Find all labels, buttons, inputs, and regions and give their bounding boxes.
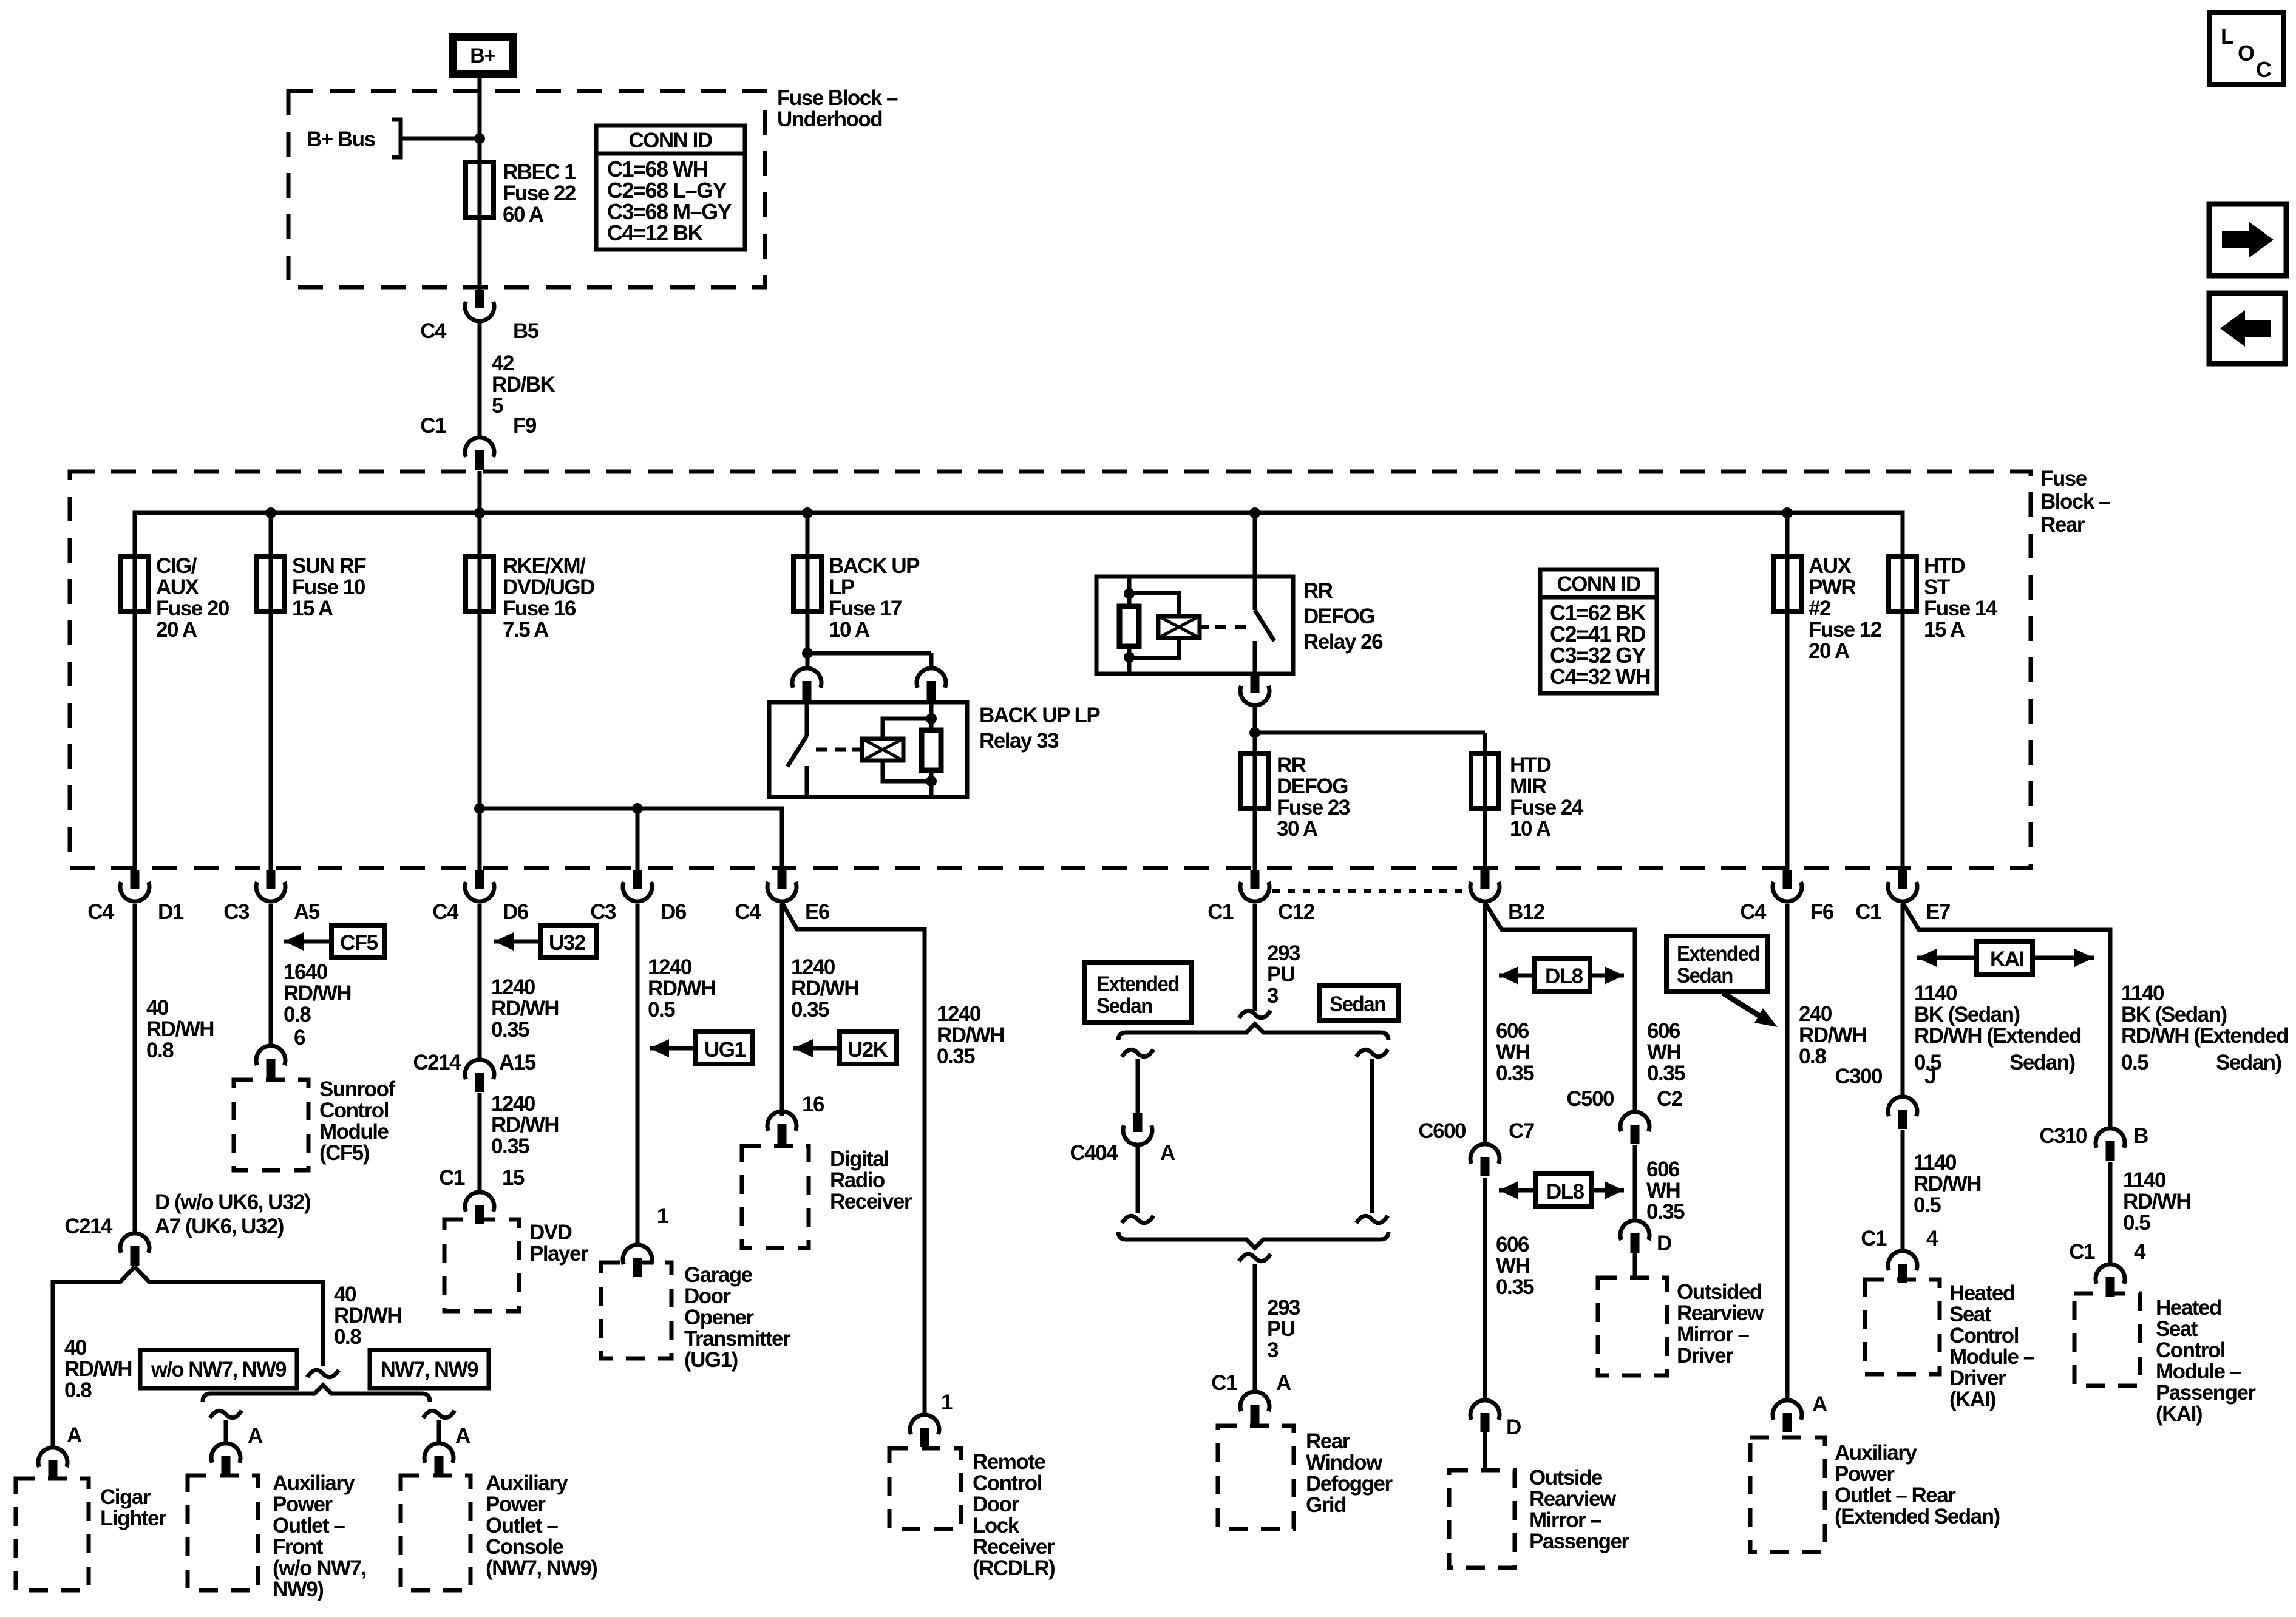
svg-text:SUN RF: SUN RF [292, 554, 366, 578]
svg-text:Module –: Module – [1949, 1345, 2035, 1369]
svg-text:Sedan: Sedan [1677, 964, 1733, 988]
svg-text:O: O [2238, 41, 2254, 66]
svg-text:BACK UP: BACK UP [829, 554, 920, 578]
svg-text:C: C [2256, 57, 2272, 82]
svg-text:C1: C1 [1211, 1371, 1237, 1395]
svg-text:Fuse 14: Fuse 14 [1924, 597, 1998, 620]
wire branch to passenger heated seat [1903, 903, 2110, 1128]
svg-text:0.5: 0.5 [2123, 1211, 2150, 1235]
svg-text:60 A: 60 A [503, 203, 544, 226]
svg-text:RR: RR [1303, 579, 1333, 603]
component box Cigar Lighter [16, 1479, 89, 1590]
svg-text:C310: C310 [2039, 1124, 2087, 1148]
connector B12 [1470, 870, 1545, 924]
label Remote Control Door Lock Receiver (RCDLR) [973, 1450, 1055, 1580]
svg-text:0.5: 0.5 [648, 998, 675, 1022]
label 1140 RD/WH 0.5 passenger [2123, 1168, 2190, 1235]
svg-text:293: 293 [1267, 941, 1300, 965]
label B+ Bus [307, 127, 376, 151]
label Heated Seat Control Module Driver (KAI) [1949, 1281, 2035, 1411]
label Fuse Block - Rear [2040, 467, 2110, 537]
connector A aux outlet rear [1773, 1392, 1827, 1432]
label 606 WH 0.35 below C500 [1646, 1158, 1685, 1224]
fuse SUN RF Fuse 10 15A [257, 554, 366, 620]
svg-text:NW9): NW9) [273, 1578, 323, 1601]
fuse HTD ST Fuse 14 15A [1889, 554, 1998, 642]
svg-text:WH: WH [1496, 1040, 1529, 1064]
svg-text:7.5 A: 7.5 A [503, 618, 549, 642]
label 40 RD/WH 0.8 [146, 996, 214, 1062]
svg-text:606: 606 [1647, 1019, 1680, 1043]
svg-text:Garage: Garage [684, 1263, 753, 1287]
svg-text:Seat: Seat [2156, 1317, 2198, 1341]
connector 6 sunroof [256, 1046, 285, 1078]
svg-text:RD/WH: RD/WH [491, 997, 559, 1020]
label 1140 BK Sedan RD/WH right [2121, 981, 2288, 1074]
relay box BACK UP LP Relay 33 [769, 702, 967, 797]
svg-text:Heated: Heated [1949, 1281, 2015, 1305]
svg-text:Power: Power [1835, 1462, 1895, 1486]
svg-text:Fuse 12: Fuse 12 [1809, 618, 1882, 642]
wire branch to C500 [1485, 903, 1635, 1111]
wire branch to D6 and E6 [480, 803, 782, 870]
svg-text:4: 4 [1926, 1227, 1938, 1250]
connector C214 splice [64, 1215, 149, 1266]
fuse RBEC 1 Fuse 22 60A [466, 162, 494, 217]
svg-text:1: 1 [941, 1391, 953, 1414]
svg-text:L: L [2221, 24, 2233, 49]
svg-text:0.5: 0.5 [2121, 1051, 2148, 1074]
svg-text:1: 1 [657, 1204, 668, 1228]
label 42 RD/BK 5 [492, 351, 555, 418]
option box Extended Sedan 2 with arrow [1666, 936, 1778, 1027]
svg-text:A: A [455, 1424, 470, 1448]
component box Garage Door Opener Transmitter [601, 1263, 671, 1358]
connector 1 garage door opener [623, 1204, 668, 1277]
bus bar wire [135, 507, 1903, 557]
label DVD Player [529, 1221, 589, 1266]
svg-text:RD/WH: RD/WH [284, 981, 351, 1005]
svg-text:606: 606 [1646, 1158, 1680, 1181]
label 1140 BK Sedan RD/WH left [1914, 981, 2081, 1074]
component box Outside Rearview Mirror Driver [1598, 1278, 1667, 1375]
splice tilde on 40 RD/WH [307, 1370, 339, 1377]
fuse AUX PWR #2 Fuse 12 20A [1773, 554, 1882, 663]
svg-text:240: 240 [1799, 1002, 1832, 1026]
svg-text:CONN ID: CONN ID [628, 129, 712, 152]
svg-text:30 A: 30 A [1277, 817, 1318, 841]
fuse RR DEFOG Fuse 23 30A [1241, 753, 1350, 841]
svg-text:ST: ST [1924, 575, 1950, 599]
label 1640 RD/WH 0.8 6 [284, 960, 351, 1049]
svg-text:293: 293 [1267, 1296, 1300, 1320]
svg-text:Front: Front [273, 1535, 324, 1559]
svg-text:0.8: 0.8 [146, 1039, 174, 1062]
svg-text:Sedan: Sedan [1096, 994, 1152, 1018]
label 293 PU 3 [1267, 941, 1300, 1008]
svg-text:C4: C4 [420, 319, 447, 343]
connector C404/A [1070, 1113, 1175, 1165]
svg-text:C214: C214 [413, 1051, 461, 1074]
option break tilde [1239, 1011, 1271, 1018]
double arrow KAI [1917, 941, 2094, 974]
svg-text:1240: 1240 [791, 955, 835, 979]
svg-text:Control: Control [2156, 1338, 2225, 1362]
svg-text:Module –: Module – [2156, 1360, 2241, 1383]
svg-text:0.35: 0.35 [1496, 1275, 1534, 1299]
svg-text:(RCDLR): (RCDLR) [973, 1556, 1055, 1580]
svg-text:RKE/XM/: RKE/XM/ [503, 554, 586, 578]
svg-text:Outsided: Outsided [1677, 1280, 1762, 1304]
connector relay33 left input [792, 668, 821, 700]
svg-text:Rearview: Rearview [1677, 1301, 1764, 1325]
svg-text:NW7, NW9: NW7, NW9 [381, 1358, 478, 1381]
svg-text:Seat: Seat [1949, 1303, 1992, 1326]
svg-text:Control: Control [319, 1099, 389, 1122]
svg-text:0.8: 0.8 [334, 1325, 361, 1349]
svg-text:BK (Sedan): BK (Sedan) [2121, 1003, 2227, 1026]
connector C3/A5 [223, 870, 320, 924]
wire fuse17 to relay 33 feeds [802, 648, 931, 668]
svg-text:E7: E7 [1926, 900, 1950, 924]
svg-text:Sedan: Sedan [1330, 992, 1385, 1016]
label Outside Rearview Mirror Passenger [1529, 1466, 1629, 1553]
svg-text:Defogger: Defogger [1306, 1472, 1393, 1496]
wire B+ to fuse 22 [478, 74, 482, 290]
wire 293 PU to option split [1253, 904, 1257, 1011]
svg-text:Fuse 22: Fuse 22 [503, 181, 576, 205]
wire relay26 branch [1253, 513, 1257, 577]
svg-text:KAI: KAI [1990, 947, 2024, 971]
svg-text:4: 4 [2134, 1240, 2146, 1264]
svg-text:1140: 1140 [2123, 1168, 2166, 1192]
svg-text:DEFOG: DEFOG [1303, 605, 1374, 628]
connector C1/4 driver [1861, 1227, 1938, 1283]
svg-text:AUX: AUX [156, 575, 200, 599]
connector D passenger mirror [1470, 1400, 1521, 1470]
svg-text:Driver: Driver [1949, 1366, 2006, 1390]
svg-text:Fuse 23: Fuse 23 [1277, 796, 1350, 819]
svg-text:A: A [248, 1424, 263, 1448]
svg-text:0.8: 0.8 [1799, 1045, 1826, 1068]
svg-text:Outlet – Rear: Outlet – Rear [1835, 1483, 1956, 1507]
svg-text:U32: U32 [549, 931, 586, 955]
svg-text:HTD: HTD [1924, 554, 1965, 578]
power symbol B+ [453, 37, 513, 74]
svg-text:RR: RR [1277, 753, 1306, 777]
option box Extended Sedan [1084, 963, 1191, 1023]
svg-text:15: 15 [502, 1166, 525, 1190]
svg-text:C1: C1 [1861, 1227, 1887, 1250]
underbrace sedan options [1118, 1232, 1388, 1248]
connector C1/F9 [420, 414, 537, 470]
svg-text:Fuse 17: Fuse 17 [829, 597, 902, 620]
label 16 [802, 1093, 824, 1116]
component box DVD Player [444, 1219, 519, 1311]
component box Sunroof Control Module [234, 1080, 308, 1170]
connector C310/B [2039, 1124, 2148, 1161]
svg-text:Lock: Lock [973, 1514, 1020, 1537]
connector C4/D1 [87, 870, 184, 924]
svg-text:AUX: AUX [1809, 554, 1852, 578]
connector D driver mirror [1620, 1221, 1671, 1278]
connector C214/A15 [413, 1051, 535, 1092]
svg-text:BACK UP LP: BACK UP LP [979, 703, 1100, 727]
svg-text:C4: C4 [1740, 900, 1767, 924]
svg-text:(Extended Sedan): (Extended Sedan) [1835, 1505, 2000, 1528]
svg-text:1140: 1140 [2121, 981, 2164, 1005]
label RBEC 1 Fuse 22 60 A [503, 160, 576, 226]
svg-text:40: 40 [64, 1336, 87, 1360]
svg-text:DVD/UGD: DVD/UGD [503, 575, 594, 599]
overbrace sedan options [1118, 1024, 1388, 1040]
svg-text:0.35: 0.35 [491, 1018, 529, 1042]
extended sedan branch wire lower [1122, 1147, 1153, 1223]
svg-text:Remote: Remote [973, 1450, 1045, 1474]
wire backup branch [806, 513, 810, 668]
svg-text:Outside: Outside [1529, 1466, 1603, 1490]
label Digital Radio Receiver [830, 1147, 912, 1213]
svg-text:Cigar: Cigar [100, 1485, 151, 1509]
svg-text:0.35: 0.35 [791, 998, 829, 1022]
svg-text:WH: WH [1647, 1040, 1680, 1064]
svg-text:Passenger: Passenger [1529, 1530, 1629, 1553]
label Auxiliary Power Outlet Front [273, 1471, 366, 1601]
svg-text:(UG1): (UG1) [684, 1348, 738, 1372]
wire to heated seat driver module [1901, 1130, 1905, 1250]
wire heated seat driver [1901, 904, 1905, 1096]
wire 1640 RD/WH to sunroof [269, 904, 273, 1047]
svg-text:Radio: Radio [830, 1168, 885, 1192]
label 40 RD/WH 0.8 right [334, 1283, 401, 1349]
wire B12 to mirrors [1483, 904, 1487, 1400]
svg-text:Control: Control [973, 1471, 1042, 1495]
dashed box Fuse Block - Rear [70, 472, 2031, 868]
connector 1 RCDLR [910, 1391, 953, 1447]
svg-text:Auxiliary: Auxiliary [1835, 1441, 1917, 1465]
svg-text:RD/WH: RD/WH [1799, 1023, 1866, 1047]
svg-text:Rear: Rear [2040, 513, 2085, 537]
svg-text:Lighter: Lighter [100, 1507, 167, 1530]
connector A aux outlet console [424, 1424, 470, 1476]
svg-text:Auxiliary: Auxiliary [273, 1471, 355, 1495]
svg-text:Door: Door [684, 1284, 732, 1308]
relay33 switch [787, 702, 807, 797]
svg-text:20 A: 20 A [1809, 639, 1850, 663]
svg-text:D: D [1657, 1232, 1671, 1255]
component box Remote Control Door Lock Receiver [889, 1448, 961, 1529]
label D A7 options [155, 1190, 310, 1238]
label 1140 RD/WH 0.5 driver [1914, 1151, 1981, 1217]
connector C500/C2 [1566, 1087, 1682, 1144]
svg-text:Fuse 24: Fuse 24 [1510, 796, 1584, 819]
svg-text:CIG/: CIG/ [156, 554, 197, 578]
CONN ID table underhood [596, 126, 745, 249]
svg-text:606: 606 [1496, 1019, 1529, 1043]
connector C4/E6 [735, 870, 830, 924]
label 1240 RD/WH 0.35 rcdlr [937, 1002, 1004, 1068]
wire rke branch [478, 513, 482, 870]
connector C4/D6 [432, 870, 529, 924]
svg-text:1240: 1240 [491, 975, 535, 999]
wire 1240 RD/WH to C214/A15 [478, 904, 482, 1059]
label 240 RD/WH 0.8 [1799, 1002, 1866, 1068]
label 1240 RD/WH 0.35 lower [491, 1092, 559, 1158]
svg-text:15 A: 15 A [292, 597, 333, 620]
label 1240 RD/WH 0.35 [491, 975, 559, 1042]
label 1240 RD/WH 0.35 radio [791, 955, 858, 1022]
svg-text:D: D [1506, 1415, 1521, 1439]
label 40 RD/WH 0.8 left [64, 1336, 132, 1402]
svg-text:D6: D6 [503, 900, 529, 924]
svg-text:HTD: HTD [1510, 753, 1551, 777]
svg-text:3: 3 [1267, 1338, 1279, 1362]
svg-text:F6: F6 [1810, 900, 1834, 924]
svg-text:C1: C1 [1855, 900, 1881, 924]
svg-text:(CF5): (CF5) [319, 1141, 369, 1165]
svg-text:A: A [1276, 1371, 1291, 1395]
svg-text:C404: C404 [1070, 1141, 1118, 1165]
wire 293 PU to defogger grid [1239, 1254, 1271, 1391]
svg-text:C2: C2 [1657, 1087, 1683, 1111]
svg-text:A7 (UK6, U32): A7 (UK6, U32) [155, 1215, 284, 1238]
connector C4/B5 [420, 290, 539, 343]
svg-text:J: J [1924, 1065, 1935, 1088]
svg-text:Mirror –: Mirror – [1529, 1508, 1601, 1532]
svg-text:Fuse Block –: Fuse Block – [777, 86, 898, 110]
svg-text:RD/WH: RD/WH [1914, 1172, 1981, 1196]
component box Auxiliary Power Outlet Rear [1750, 1437, 1825, 1552]
connector C1/4 passenger [2069, 1240, 2146, 1297]
svg-text:Driver: Driver [1677, 1344, 1734, 1368]
arrow CF5 [284, 926, 385, 957]
svg-text:WH: WH [1646, 1179, 1680, 1202]
svg-text:C4: C4 [432, 900, 459, 924]
svg-text:#2: #2 [1809, 597, 1831, 620]
svg-text:B5: B5 [513, 319, 539, 343]
arrow UG1 [650, 1032, 752, 1064]
svg-text:UG1: UG1 [704, 1038, 746, 1062]
svg-text:RBEC 1: RBEC 1 [503, 160, 576, 184]
wire 240 RD/WH to aux outlet rear [1785, 904, 1790, 1400]
svg-text:1140: 1140 [1914, 981, 1957, 1005]
wire C2 to driver mirror [1633, 1145, 1637, 1220]
nav box arrow left [2209, 293, 2285, 364]
svg-text:CF5: CF5 [340, 931, 378, 955]
connector C1/A defogger [1211, 1371, 1291, 1424]
connector relay33 right input [917, 668, 946, 700]
svg-text:20 A: 20 A [156, 618, 197, 642]
label Cigar Lighter [100, 1485, 167, 1530]
connector C600/C7 [1418, 1119, 1533, 1176]
svg-text:A: A [1160, 1141, 1175, 1165]
svg-text:RD/WH (Extended: RD/WH (Extended [2121, 1024, 2288, 1048]
connector C4/F6 [1740, 870, 1834, 924]
svg-text:Heated: Heated [2156, 1296, 2221, 1320]
connector A aux outlet front [211, 1424, 263, 1476]
svg-text:LP: LP [829, 575, 855, 599]
label 606 WH 0.35 below C600 [1496, 1233, 1534, 1299]
component box Auxiliary Power Outlet Front [188, 1476, 258, 1590]
svg-text:Extended: Extended [1096, 972, 1179, 996]
svg-text:Control: Control [1949, 1324, 2019, 1347]
svg-text:RD/WH: RD/WH [491, 1113, 559, 1137]
loc reference box [2209, 12, 2284, 84]
sedan branch wire [1356, 1049, 1388, 1223]
svg-text:1140: 1140 [1914, 1151, 1957, 1175]
svg-text:RD/WH (Extended: RD/WH (Extended [1914, 1024, 2081, 1048]
component box Outside Rearview Mirror Passenger [1449, 1470, 1515, 1568]
svg-text:10 A: 10 A [829, 618, 870, 642]
svg-text:Sunroof: Sunroof [319, 1077, 395, 1101]
connector C300/J [1835, 1065, 1935, 1129]
svg-text:A15: A15 [499, 1051, 536, 1074]
fuse BACK UP LP Fuse 17 10A [793, 554, 920, 642]
svg-text:WH: WH [1496, 1254, 1529, 1278]
svg-text:3: 3 [1267, 984, 1279, 1008]
label Auxiliary Power Outlet Console [486, 1471, 597, 1580]
wire into rear fuse block [478, 471, 482, 513]
svg-text:C1: C1 [420, 414, 446, 438]
label 606 WH 0.35 left [1496, 1019, 1534, 1085]
svg-text:Mirror –: Mirror – [1677, 1323, 1749, 1346]
svg-text:Door: Door [973, 1493, 1020, 1516]
wire 1240 RD/WH to garage door opener [636, 904, 640, 1244]
wire fuse14 down [1901, 513, 1905, 870]
svg-text:Auxiliary: Auxiliary [486, 1471, 568, 1495]
svg-text:Extended: Extended [1677, 942, 1759, 966]
svg-text:BK (Sedan): BK (Sedan) [1914, 1003, 2020, 1026]
right option drop wire [423, 1411, 455, 1443]
svg-text:C214: C214 [64, 1215, 113, 1238]
label RR DEFOG Relay 26 [1303, 579, 1383, 654]
svg-text:Fuse 20: Fuse 20 [156, 597, 229, 620]
svg-text:RD/WH: RD/WH [648, 977, 715, 1000]
svg-text:C4: C4 [735, 900, 761, 924]
svg-text:RD/WH: RD/WH [64, 1357, 132, 1381]
svg-text:0.8: 0.8 [64, 1378, 92, 1402]
svg-text:Fuse: Fuse [2040, 467, 2087, 490]
svg-text:1240: 1240 [491, 1092, 535, 1116]
label 606 WH 0.35 right [1647, 1019, 1685, 1085]
label Sunroof Control Module (CF5) [319, 1077, 395, 1165]
svg-text:Relay 26: Relay 26 [1303, 630, 1383, 654]
svg-text:1240: 1240 [648, 955, 692, 979]
svg-text:10 A: 10 A [1510, 817, 1551, 841]
option box w/o NW7 NW9 [140, 1350, 297, 1388]
fuse RKE/XM/DVD/UGD Fuse 16 7.5A [466, 554, 594, 642]
svg-text:16: 16 [802, 1093, 824, 1116]
svg-text:D6: D6 [661, 900, 687, 924]
svg-text:Opener: Opener [684, 1306, 754, 1329]
left option drop wire [210, 1411, 242, 1443]
wire aux pwr branch [1785, 513, 1790, 870]
svg-text:0.8: 0.8 [284, 1003, 311, 1026]
relay33 coil with resistor [813, 702, 941, 797]
svg-text:DVD: DVD [529, 1221, 572, 1244]
nav box arrow right [2209, 204, 2286, 276]
dotted connector boundary C12-B12 [1272, 889, 1469, 893]
arrow U32 [494, 926, 596, 957]
connector C1/C12 [1207, 870, 1314, 924]
wire 1240 RD/WH to digital radio [780, 904, 784, 1116]
svg-text:Power: Power [486, 1493, 546, 1516]
double arrow DL8 lower [1499, 1174, 1624, 1207]
relay26 coil with resistor [1119, 577, 1248, 674]
svg-text:Module: Module [319, 1120, 389, 1144]
svg-text:Digital: Digital [830, 1147, 888, 1171]
dashed box Fuse Block - Underhood [288, 91, 765, 287]
